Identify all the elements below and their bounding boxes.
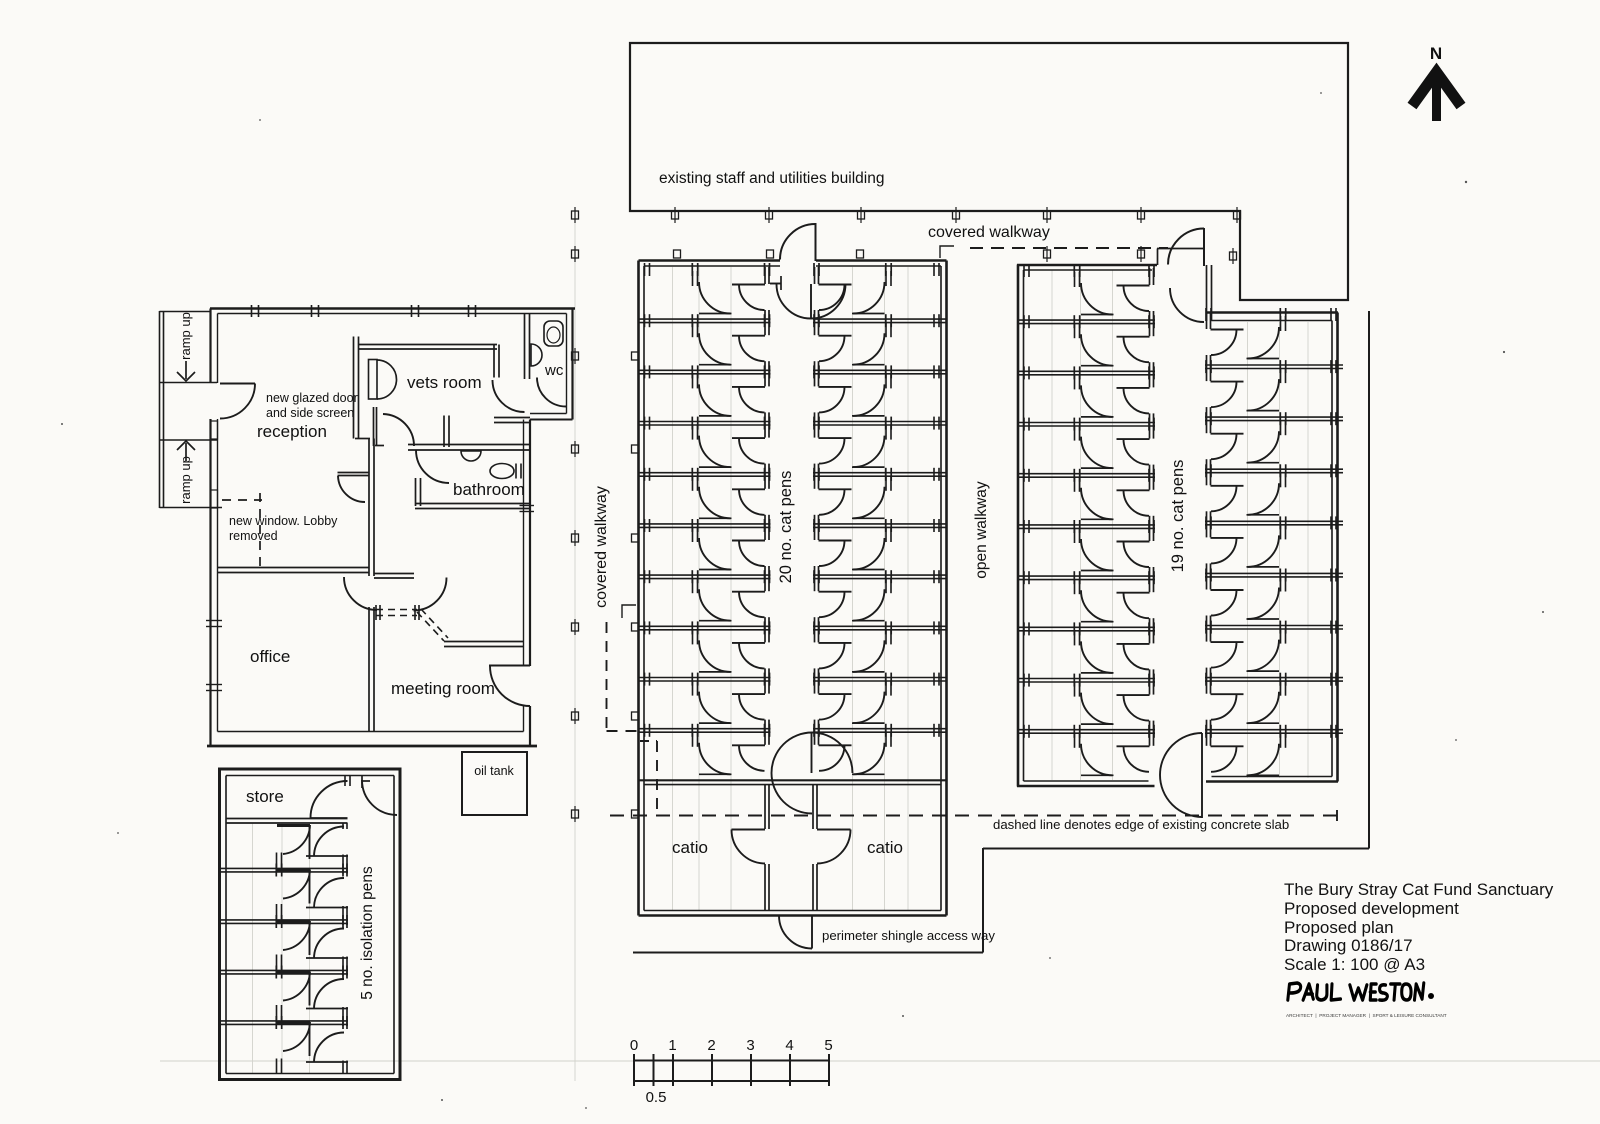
- dashed line denoting edge of existing concrete slab: [610, 810, 1337, 821]
- svg-text:reception: reception: [257, 422, 327, 441]
- cat pen row R1 (19-pen building): [1206, 308, 1336, 364]
- svg-text:covered walkway: covered walkway: [928, 224, 1050, 241]
- cat pen row L3 (19-pen building): [1017, 366, 1155, 421]
- vets room south door: [383, 414, 414, 446]
- store room south wall: [226, 819, 348, 824]
- vets room north wall: [359, 345, 500, 378]
- svg-text:Scale 1: 100 @ A3: Scale 1: 100 @ A3: [1284, 955, 1425, 974]
- svg-text:0.5: 0.5: [646, 1089, 667, 1106]
- cat pen row R8 (19-pen building): [1205, 673, 1343, 729]
- catio label left: [672, 838, 708, 857]
- svg-text:4: 4: [785, 1037, 793, 1054]
- main entrance door: [220, 384, 255, 419]
- svg-text:catio: catio: [867, 838, 903, 857]
- catio passage walls: [765, 785, 817, 911]
- svg-text:office: office: [250, 647, 290, 666]
- covered walkway dashed boundary west: [607, 622, 658, 815]
- 19 no. cat pens building outer walls: [1017, 265, 1338, 787]
- svg-text:20 no. cat pens: 20 no. cat pens: [777, 471, 795, 584]
- cat pen row L2 (20-pen building): [639, 314, 771, 369]
- 20-pen building entrance door (top): [780, 223, 816, 261]
- consultant small print: [1286, 1013, 1447, 1018]
- concrete slab dashed line label: [993, 817, 1289, 832]
- isolation pens label: [359, 866, 376, 1000]
- column ticks on cat pen building west wall: [632, 352, 639, 818]
- svg-text:1: 1: [668, 1037, 676, 1054]
- bathroom basin: [461, 451, 481, 461]
- svg-text:wc: wc: [544, 362, 564, 379]
- cat pen row R9 (19-pen building): [1205, 725, 1343, 776]
- meeting room east door: [489, 666, 530, 707]
- svg-text:and side screen: and side screen: [266, 406, 354, 420]
- covered walkway columns on dashed line: [572, 207, 1237, 264]
- oil tank: [462, 752, 527, 815]
- office north wall: [218, 568, 370, 573]
- signature full stop: [1428, 993, 1434, 999]
- ramp structure: [160, 311, 223, 508]
- hall walls south of vets room: [338, 407, 385, 476]
- column ticks on cat pen building north wall: [674, 250, 864, 258]
- column ticks on staff building south wall: [672, 207, 1241, 223]
- 20-pen building corridor label: [777, 471, 795, 584]
- signature Paul Weston: [1288, 983, 1424, 1000]
- wc toilet: [544, 321, 563, 346]
- svg-text:0: 0: [630, 1037, 638, 1054]
- cat pen row L2 (19-pen building): [1017, 315, 1155, 370]
- central spine wall: [369, 439, 374, 732]
- catio exit door (south): [779, 915, 812, 949]
- existing staff and utilities building outline: [630, 43, 1348, 300]
- cat pen row R2 (20-pen building): [813, 314, 947, 369]
- north arrow: [1412, 44, 1461, 121]
- cat pen row L7 (20-pen building): [639, 570, 771, 625]
- cat pen row L9 (20-pen building): [639, 673, 771, 728]
- reception label: [257, 422, 327, 441]
- svg-text:new glazed door: new glazed door: [266, 391, 358, 405]
- cat pen row R3 (20-pen building): [813, 365, 947, 420]
- svg-text:oil tank: oil tank: [474, 764, 514, 778]
- cat pen row R4 (19-pen building): [1205, 464, 1343, 520]
- new glazed door note: [266, 391, 358, 420]
- isolation pen 1: [220, 823, 349, 877]
- 19-pen building entrance door (top): [1157, 228, 1212, 322]
- covered walkway columns (west of cat pens): [572, 348, 579, 822]
- covered walkway label (top): [928, 224, 1050, 241]
- window symbols on east wall: [520, 506, 535, 512]
- catio doors from passage: [732, 830, 851, 864]
- svg-text:covered walkway: covered walkway: [593, 486, 610, 608]
- svg-text:The Bury Stray Cat Fund Sanctu: The Bury Stray Cat Fund Sanctuary: [1284, 880, 1554, 899]
- cat pen row L9 (19-pen building): [1017, 674, 1155, 729]
- svg-text:2: 2: [707, 1037, 715, 1054]
- svg-text:bathroom: bathroom: [453, 480, 525, 499]
- vets room label: [407, 373, 482, 392]
- 19-pen corridor south exit door: [1160, 733, 1202, 818]
- isolation corridor outer door: [362, 776, 397, 815]
- hall door to meeting room: [414, 578, 447, 611]
- cat pen row R10 (20-pen building): [813, 724, 947, 775]
- svg-text:dashed line denotes edge of ex: dashed line denotes edge of existing con…: [993, 817, 1289, 832]
- open walkway label (vertical): [973, 481, 990, 579]
- cat pen row L1 (19-pen building): [1024, 264, 1154, 319]
- scale bar numbers: [630, 1037, 833, 1106]
- svg-text:catio: catio: [672, 838, 708, 857]
- cat pen row L4 (20-pen building): [639, 417, 771, 472]
- cat pen row R8 (20-pen building): [813, 621, 947, 676]
- window symbols on reception north wall: [252, 305, 476, 317]
- isolation pen 5: [277, 1020, 349, 1074]
- store label: [246, 787, 284, 806]
- new window lobby removed note: [229, 514, 338, 543]
- svg-text:store: store: [246, 787, 284, 806]
- cat pen row L5 (19-pen building): [1017, 469, 1155, 524]
- vets room double swing door: [369, 360, 397, 400]
- catio label right: [867, 838, 903, 857]
- wc label: [544, 362, 564, 379]
- hall door to office: [344, 577, 377, 610]
- covered walkway pointer mark: [622, 605, 636, 618]
- cat pen row L6 (19-pen building): [1017, 520, 1155, 575]
- vets room west wall: [354, 337, 359, 439]
- svg-text:meeting room: meeting room: [391, 679, 495, 698]
- lobby removed dashed lines: [222, 493, 262, 572]
- cat pen row R7 (19-pen building): [1205, 621, 1343, 677]
- cat pen row L4 (19-pen building): [1017, 418, 1155, 473]
- reception building outer walls: [207, 309, 575, 747]
- corner mark at cat pen building NE corner: [940, 246, 954, 258]
- bathroom toilet: [490, 464, 521, 479]
- cat pen row R9 (20-pen building): [813, 673, 947, 728]
- svg-text:ramp up: ramp up: [178, 456, 193, 504]
- cat pen row R7 (20-pen building): [813, 570, 947, 625]
- store door: [311, 776, 351, 819]
- svg-text:ARCHITECT | PROJECT MANAGER: ARCHITECT | PROJECT MANAGER | SPORT & LE…: [1286, 1013, 1447, 1018]
- ramp up label (south ramp): [178, 456, 193, 504]
- cat pen row L5 (20-pen building): [639, 468, 771, 523]
- meeting room north wall segment: [444, 642, 524, 647]
- title block text: [1284, 880, 1554, 974]
- wc door: [537, 378, 566, 407]
- ramp arrow (south ramp): [177, 441, 195, 461]
- cat pen row R5 (19-pen building): [1205, 516, 1343, 572]
- cat pen row L8 (20-pen building): [639, 621, 771, 676]
- window symbols on west wall: [206, 421, 222, 691]
- cat pen row R5 (20-pen building): [813, 468, 947, 523]
- cat pen row L1 (20-pen building): [645, 263, 770, 318]
- bathroom door: [416, 450, 449, 483]
- ramp arrow (north ramp): [177, 361, 195, 381]
- svg-text:ramp up: ramp up: [178, 312, 193, 360]
- svg-text:Proposed development: Proposed development: [1284, 899, 1459, 918]
- isolation pen 2: [220, 868, 349, 929]
- cat pen row L7 (19-pen building): [1017, 571, 1155, 626]
- 19-pen building corridor label: [1169, 460, 1187, 573]
- cat pen row R3 (19-pen building): [1205, 412, 1343, 468]
- meeting room label: [391, 679, 495, 698]
- cat pen row R4 (20-pen building): [813, 417, 947, 472]
- cat pen row L6 (20-pen building): [639, 519, 771, 574]
- scale bar: [634, 1054, 829, 1086]
- svg-text:perimeter shingle access way: perimeter shingle access way: [822, 928, 995, 943]
- office label: [250, 647, 290, 666]
- isolation pen 3: [220, 919, 349, 979]
- svg-text:Drawing 0186/17: Drawing 0186/17: [1284, 936, 1413, 955]
- 20-pen building inner lobby door: [770, 276, 846, 319]
- isolation pen 4: [220, 970, 349, 1030]
- svg-text:N: N: [1430, 44, 1442, 63]
- bathroom label: [453, 480, 525, 499]
- cat pen row R1 (20-pen building): [814, 263, 939, 318]
- isolation pens building outer walls: [220, 769, 401, 1080]
- staff building label: [659, 170, 884, 187]
- cat pen row L10 (19-pen building): [1017, 725, 1155, 776]
- svg-text:3: 3: [746, 1037, 754, 1054]
- removed wall dashed opening: [376, 605, 448, 641]
- cat pen row R6 (19-pen building): [1205, 569, 1343, 625]
- svg-text:open walkway: open walkway: [973, 481, 990, 579]
- wc basin: [531, 344, 542, 366]
- perimeter shingle access way line: [633, 311, 1369, 953]
- ramp up label (north ramp): [178, 312, 193, 360]
- perimeter shingle access way label: [822, 928, 995, 943]
- reception hall door: [338, 476, 365, 502]
- svg-text:existing staff and utilities b: existing staff and utilities building: [659, 170, 884, 187]
- covered walkway label (west, vertical): [593, 486, 610, 608]
- door vets hall: [493, 380, 525, 412]
- svg-text:5: 5: [824, 1037, 832, 1054]
- svg-text:19 no. cat pens: 19 no. cat pens: [1169, 460, 1187, 573]
- cat pen row L8 (19-pen building): [1017, 622, 1155, 677]
- 20-pen corridor south door (to catio passage): [772, 733, 853, 814]
- cat pen row L3 (20-pen building): [639, 365, 771, 420]
- svg-text:vets room: vets room: [407, 373, 482, 392]
- svg-text:removed: removed: [229, 529, 278, 543]
- covered walkway dashed line: [970, 247, 1168, 249]
- 20 no. cat pens building outer walls: [639, 261, 947, 916]
- svg-text:Proposed plan: Proposed plan: [1284, 918, 1394, 937]
- svg-text:5 no. isolation pens: 5 no. isolation pens: [359, 866, 376, 1000]
- cat pen row L10 (20-pen building): [639, 724, 771, 775]
- cat pen row R2 (19-pen building): [1205, 360, 1343, 416]
- oil tank label: [474, 764, 514, 778]
- hall walls around bathroom: [374, 416, 530, 579]
- svg-text:new window. Lobby: new window. Lobby: [229, 514, 338, 528]
- cat pen row R6 (20-pen building): [813, 519, 947, 574]
- bathroom walls: [408, 445, 530, 509]
